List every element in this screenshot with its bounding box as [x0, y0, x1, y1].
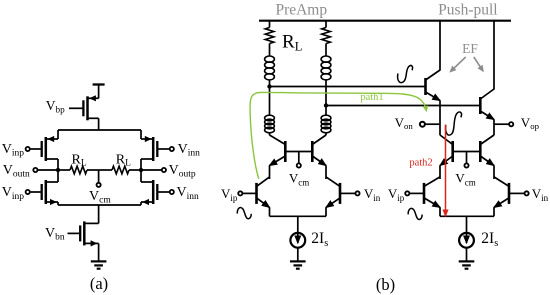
transistor M2 (NMOS V_inp): [41, 184, 43, 200]
wire Q2 emitter down: [325, 166, 327, 180]
svg-text:PreAmp: PreAmp: [275, 1, 327, 18]
resistor RL left (b): [269, 21, 271, 28]
arrow EF left: [451, 57, 466, 71]
terminal V_ip (push-pull): [405, 191, 409, 195]
wire V_cm tap (push-pull): [466, 152, 468, 164]
terminal V_on: [420, 122, 425, 127]
wire preamp right output to EF2 base: [326, 105, 480, 107]
transistor M4 (NMOS V_inn): [156, 184, 158, 200]
wire V_outp: [141, 169, 162, 171]
wire V_cm tap (preamp): [298, 152, 300, 164]
terminal V_inn bottom: [170, 190, 174, 194]
wire V_bp gate: [69, 107, 83, 109]
terminal V_in (push-pull): [525, 191, 529, 195]
power rail VDD bar (a): [93, 83, 105, 85]
terminal V_inp top: [26, 147, 30, 151]
svg-text:path2: path2: [409, 157, 432, 168]
wire M2 source: [57, 202, 59, 205]
wire Q1 emitter down: [269, 166, 271, 180]
wire M1 gate: [30, 148, 42, 150]
inductor left lower (b): [265, 115, 275, 121]
transistor M3 (PMOS V_inn): [156, 141, 158, 157]
sine squiggle at V_ip (push-pull): [408, 208, 422, 219]
terminal V_ip (preamp): [238, 191, 242, 195]
inductor left upper (b): [265, 56, 275, 62]
transistor Q10 (push-pull input right): [508, 183, 511, 204]
terminal V_outn: [33, 168, 37, 172]
svg-text:EF: EF: [462, 41, 478, 56]
wire Q4 emitter to tail: [325, 207, 327, 216]
wire Q9 emitter to tail: [439, 207, 441, 216]
wire M1 drain: [57, 159, 59, 170]
arrow EF right: [474, 57, 483, 71]
wire M4 gate: [157, 191, 169, 193]
svg-text:(a): (a): [90, 274, 108, 293]
transistor Q1 (preamp cascode left): [284, 141, 287, 162]
wire V_cm tap (a): [98, 170, 100, 183]
wire M4 source: [140, 202, 142, 205]
wire Q7 emitter down: [439, 166, 441, 180]
sine squiggle on EF1 base wire: [398, 66, 413, 83]
node preamp left output: [267, 84, 271, 88]
node right output (a): [139, 168, 143, 172]
transistor Q6 (EF right): [479, 97, 482, 114]
terminal V_cm (a): [97, 183, 101, 187]
transistor Mbn (NMOS V_bn): [79, 225, 81, 241]
wire current source to ground (preamp): [297, 248, 299, 262]
transistor Q4 (preamp input right): [339, 183, 342, 204]
wire V_bp drain to rail: [98, 118, 100, 130]
wire Q3 base: [243, 192, 257, 194]
wire cascode base rail (push-pull): [453, 151, 481, 153]
wire Q3 emitter to tail: [269, 207, 271, 216]
ground (preamp): [290, 260, 306, 262]
ground (a): [91, 260, 107, 262]
wire left node down: [269, 87, 271, 116]
terminal V_outp: [162, 168, 166, 172]
wire Q10 base: [509, 192, 524, 194]
wire right coil2 to Q2: [325, 133, 327, 135]
resistor RL right (b): [325, 21, 327, 28]
terminal V_inn top: [170, 147, 174, 151]
power rail (b): [259, 20, 511, 22]
transistor Q8 (push-pull cascode right): [479, 141, 482, 162]
transistor Q7 (push-pull cascode left): [451, 141, 454, 162]
wire V_outn: [38, 169, 58, 171]
wire V_on: [425, 123, 440, 125]
wire Q10 emitter to tail: [493, 207, 495, 216]
wire tail rail (a): [58, 204, 141, 206]
annotation path2 arrow: [445, 125, 447, 216]
wire Q6 collector to rail: [493, 21, 495, 90]
sine squiggle at V_on: [446, 112, 462, 135]
svg-text:path1: path1: [360, 92, 383, 103]
transistor Q9 (push-pull input left): [423, 183, 426, 204]
wire right node down: [325, 106, 327, 116]
current source 2Is (preamp): [290, 233, 305, 248]
wire M2 drain: [57, 170, 59, 182]
current source 2Is (push-pull): [459, 233, 474, 248]
wire tail rail (push-pull): [440, 215, 494, 217]
wire cascode base rail (preamp): [285, 151, 312, 153]
wire right coil to node: [325, 80, 327, 106]
wire Q8 emitter down: [493, 166, 495, 180]
svg-text:(b): (b): [376, 275, 395, 294]
svg-text:Push-pull: Push-pull: [438, 2, 497, 19]
wire M3 gate: [157, 148, 169, 150]
wire M4 drain: [140, 170, 142, 182]
wire M2 gate: [30, 191, 42, 193]
wire source rail (a): [58, 129, 141, 131]
wire current source to ground (push-pull): [466, 248, 468, 262]
transistor Q2 (preamp cascode right): [311, 141, 314, 162]
wire Q5 collector to rail: [439, 21, 441, 71]
wire preamp left output to EF1 base: [270, 86, 426, 88]
wire left coil to node: [269, 80, 271, 87]
node left output (a): [56, 168, 60, 172]
wire M3 drain: [140, 159, 142, 170]
wire V_bn gate: [68, 232, 81, 234]
ground (push-pull): [459, 260, 475, 262]
terminal V_op: [509, 122, 513, 126]
wire left coil2 to Q1: [269, 133, 271, 135]
transistor Q3 (preamp input left): [255, 183, 258, 204]
wire Q6 emitter down: [493, 120, 495, 136]
wire Q9 base: [410, 192, 424, 194]
resistor RL left (a): [58, 169, 70, 171]
transistor Q5 (EF left): [424, 78, 427, 95]
terminal V_inp bottom: [26, 190, 30, 194]
wire V_op: [494, 123, 509, 125]
inductor right upper (b): [321, 56, 331, 62]
wire Q5 emitter down: [439, 101, 441, 136]
terminal V_cm (preamp): [297, 163, 301, 167]
terminal V_in (preamp): [355, 191, 359, 195]
wire V_bn source to ground: [98, 243, 100, 261]
sine squiggle at V_ip (preamp): [237, 208, 251, 219]
resistor RL right (a): [99, 169, 112, 171]
transistor M1 (PMOS V_inp): [41, 141, 43, 157]
wire tail rail (preamp): [270, 215, 327, 217]
node preamp right output: [324, 103, 328, 107]
terminal V_cm (push-pull): [464, 163, 468, 167]
inductor right lower (b): [321, 115, 331, 121]
annotation path1 curve: [250, 92, 426, 178]
transistor Mbp (PMOS V_bp): [82, 100, 84, 116]
wire Q4 base: [340, 192, 355, 194]
